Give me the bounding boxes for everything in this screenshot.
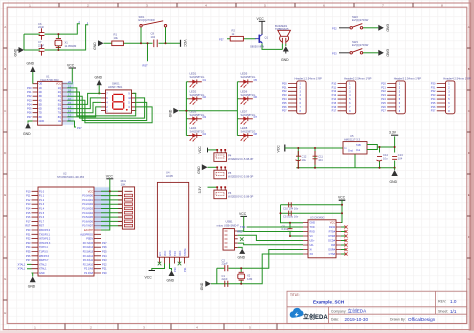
svg-text:S8050 NPN: S8050 NPN bbox=[250, 45, 264, 49]
svg-text:P1.1: P1.1 bbox=[39, 195, 45, 198]
wire bbox=[24, 24, 88, 50]
svg-text:2D: 2D bbox=[39, 91, 42, 94]
wire U4 power bbox=[152, 264, 172, 271]
connector Header4 bbox=[437, 76, 471, 114]
svg-text:2Q: 2Q bbox=[58, 91, 61, 94]
svg-text:P30: P30 bbox=[26, 228, 31, 232]
svg-text:D5: D5 bbox=[254, 78, 258, 82]
svg-text:P12: P12 bbox=[26, 198, 31, 202]
svg-text:10u: 10u bbox=[302, 158, 307, 162]
wire LE to P27 bbox=[67, 121, 76, 127]
svg-text:P02: P02 bbox=[282, 89, 287, 93]
svg-text:P0.3/AD3: P0.3/AD3 bbox=[82, 208, 93, 211]
frame column ticks bottom bbox=[65, 324, 277, 330]
svg-text:EN: EN bbox=[159, 252, 162, 256]
wire bbox=[104, 27, 181, 61]
svg-text:USB1: USB1 bbox=[226, 220, 234, 224]
svg-text:C5 100u 16v: C5 100u 16v bbox=[283, 215, 299, 219]
svg-text:P04: P04 bbox=[282, 97, 287, 101]
wire TXD RXD bbox=[243, 227, 303, 232]
wire segment bus bbox=[67, 88, 152, 123]
svg-text:Company:: Company: bbox=[331, 309, 347, 313]
svg-text:D6: D6 bbox=[254, 95, 258, 99]
capacitor C6 bbox=[38, 22, 44, 40]
svg-text:TITLE:: TITLE: bbox=[290, 293, 300, 297]
svg-text:X2: X2 bbox=[247, 274, 251, 278]
node labels U2 right P2x bbox=[102, 241, 107, 275]
svg-text:P6: P6 bbox=[228, 191, 232, 195]
junction bbox=[57, 49, 59, 51]
svg-text:XI: XI bbox=[310, 249, 313, 252]
svg-text:P1.6: P1.6 bbox=[39, 216, 45, 219]
selection highlight bbox=[95, 187, 110, 229]
junction bbox=[240, 267, 242, 285]
node P30-P37 labels bbox=[431, 81, 436, 112]
ground flag SMG1 common bbox=[95, 75, 103, 94]
svg-text:GND: GND bbox=[238, 256, 246, 260]
svg-text:GND: GND bbox=[27, 62, 35, 66]
wire P0 bus to RN1 bbox=[101, 196, 122, 226]
svg-text:P33: P33 bbox=[332, 52, 337, 56]
svg-text:GND: GND bbox=[281, 58, 289, 62]
svg-text:P10: P10 bbox=[332, 81, 337, 85]
svg-text:D4: D4 bbox=[203, 132, 207, 136]
resistor R1 bbox=[112, 33, 124, 46]
svg-text:4Q: 4Q bbox=[58, 99, 61, 102]
pin numbers U1 right bbox=[68, 80, 71, 121]
ground bbox=[197, 164, 208, 174]
svg-text:6D: 6D bbox=[39, 108, 42, 111]
node P20-P27 labels bbox=[381, 81, 386, 112]
svg-text:5Q: 5Q bbox=[58, 103, 61, 106]
svg-text:TXD: TXD bbox=[240, 225, 245, 229]
svg-text:P03: P03 bbox=[282, 93, 287, 97]
switch SW1 bbox=[139, 15, 167, 27]
ground bbox=[281, 46, 289, 62]
frame column ticks top bbox=[59, 3, 413, 7]
svg-text:Sheet:: Sheet: bbox=[438, 310, 448, 314]
svg-text:P10: P10 bbox=[26, 189, 31, 193]
pin stubs USB1 bbox=[235, 231, 238, 247]
svg-text:C14: C14 bbox=[383, 153, 388, 157]
selection highlight U1 bbox=[62, 82, 74, 125]
svg-text:STATE: STATE bbox=[184, 248, 187, 256]
svg-text:Example_SCH: Example_SCH bbox=[313, 299, 345, 304]
transistor Q1 bbox=[250, 34, 269, 48]
svg-text:X1: X1 bbox=[65, 41, 69, 45]
svg-text:P11: P11 bbox=[26, 194, 31, 198]
svg-text:P34: P34 bbox=[26, 245, 31, 249]
LED4 bbox=[188, 126, 206, 141]
svg-text:SW1: SW1 bbox=[139, 15, 145, 19]
svg-text:P01: P01 bbox=[282, 85, 287, 89]
svg-text:DCD#: DCD# bbox=[328, 240, 335, 243]
junction bbox=[379, 146, 396, 169]
svg-text:立创EDA: 立创EDA bbox=[348, 308, 368, 315]
svg-text:EVQQ2703W: EVQQ2703W bbox=[139, 18, 156, 22]
svg-text:P1.3: P1.3 bbox=[39, 203, 45, 206]
crystal X2 bbox=[238, 272, 253, 281]
connector P5 bbox=[208, 166, 254, 178]
LED7 bbox=[239, 110, 257, 125]
svg-text:REV:: REV: bbox=[438, 300, 446, 304]
svg-text:P32: P32 bbox=[431, 89, 436, 93]
svg-text:VCC: VCC bbox=[56, 83, 61, 86]
svg-text:TXD: TXD bbox=[174, 251, 177, 256]
svg-text:P31: P31 bbox=[183, 267, 187, 272]
ground bbox=[93, 40, 104, 50]
svg-text:XTAL2: XTAL2 bbox=[18, 262, 26, 266]
svg-text:D1: D1 bbox=[203, 78, 207, 82]
svg-text:VCC: VCC bbox=[145, 276, 153, 280]
svg-text:P22: P22 bbox=[381, 89, 386, 93]
svg-text:8Q: 8Q bbox=[58, 116, 61, 119]
sheet edge band right bbox=[469, 0, 474, 333]
svg-text:6Q: 6Q bbox=[58, 108, 61, 111]
svg-text:P0.4/AD4: P0.4/AD4 bbox=[82, 212, 93, 215]
frame row ticks right bbox=[467, 48, 471, 258]
pin names U2 right bbox=[80, 190, 93, 275]
svg-text:GND: GND bbox=[167, 278, 175, 282]
wire D- to UD+ bbox=[238, 235, 303, 240]
capacitor C8 bbox=[151, 32, 158, 48]
pin stubs SMG1 bbox=[101, 93, 136, 110]
svg-text:P03: P03 bbox=[27, 98, 32, 102]
svg-text:P32: P32 bbox=[26, 237, 31, 241]
svg-text:A: A bbox=[468, 25, 470, 29]
svg-text:H: H bbox=[4, 311, 6, 315]
svg-text:UD-: UD- bbox=[310, 244, 315, 247]
svg-text:P20: P20 bbox=[102, 271, 107, 275]
svg-text:P37: P37 bbox=[431, 109, 436, 113]
svg-text:P13: P13 bbox=[332, 93, 337, 97]
svg-text:E: E bbox=[468, 193, 470, 197]
svg-text:GND: GND bbox=[28, 284, 36, 288]
svg-text:TMB09A05: TMB09A05 bbox=[275, 27, 289, 31]
IC U3 bbox=[308, 215, 336, 257]
svg-text:C12: C12 bbox=[302, 155, 307, 159]
ground U1 bottom bbox=[23, 121, 33, 136]
svg-text:F: F bbox=[468, 235, 470, 239]
svg-text:DTR#: DTR# bbox=[328, 235, 335, 238]
svg-text:VCC: VCC bbox=[198, 146, 202, 154]
buzzer BUZZER1 bbox=[275, 24, 290, 44]
svg-text:RST: RST bbox=[143, 64, 149, 68]
svg-text:P4: P4 bbox=[228, 154, 232, 158]
ground bbox=[14, 47, 25, 57]
pin stubs U2 right bbox=[94, 191, 101, 273]
svg-text:P00: P00 bbox=[282, 81, 287, 85]
svg-text:P21: P21 bbox=[381, 85, 386, 89]
svg-text:P13: P13 bbox=[26, 202, 31, 206]
svg-text:EVQQ2703W: EVQQ2703W bbox=[352, 43, 369, 47]
capacitor C11 bbox=[313, 151, 324, 165]
ground bbox=[167, 271, 175, 283]
svg-text:P26: P26 bbox=[381, 105, 386, 109]
decimal point bbox=[126, 109, 128, 111]
capacitor C14 bbox=[377, 153, 389, 161]
ground flag above U1 bbox=[27, 62, 36, 84]
svg-text:P26: P26 bbox=[102, 245, 107, 249]
svg-text:P16: P16 bbox=[332, 105, 337, 109]
svg-text:Header1 2.54mm 1*8P: Header1 2.54mm 1*8P bbox=[295, 76, 323, 80]
pin stubs U4 bbox=[160, 257, 185, 263]
svg-text:Drawn By:: Drawn By: bbox=[390, 318, 406, 322]
IC U4 bbox=[157, 171, 188, 258]
svg-text:VCC: VCC bbox=[338, 196, 346, 200]
svg-text:U5: U5 bbox=[350, 134, 354, 138]
node P00-P07 labels bbox=[282, 81, 287, 112]
svg-text:Q1: Q1 bbox=[265, 36, 269, 40]
svg-text:RI#: RI# bbox=[331, 244, 336, 247]
junction bbox=[289, 222, 291, 237]
svg-text:1D: 1D bbox=[39, 87, 42, 90]
svg-text:P37: P37 bbox=[219, 38, 224, 42]
no-connect X pins bbox=[158, 262, 182, 266]
svg-text:VCC: VCC bbox=[88, 190, 93, 193]
no-connect X bbox=[240, 237, 244, 241]
svg-text:7D: 7D bbox=[39, 112, 42, 115]
connector USB1 bbox=[217, 220, 240, 251]
svg-text:P12: P12 bbox=[332, 89, 337, 93]
power flag VCC above RN1 bbox=[106, 174, 114, 179]
svg-text:OfficalDesign: OfficalDesign bbox=[408, 317, 436, 322]
wire XTAL nodes bbox=[27, 264, 32, 268]
svg-text:XTAL1: XTAL1 bbox=[39, 268, 47, 271]
wire GND rail LEDs bbox=[179, 110, 237, 112]
svg-text:T1/P3.5: T1/P3.5 bbox=[39, 251, 48, 254]
svg-text:U4: U4 bbox=[166, 171, 170, 175]
svg-text:0.01u: 0.01u bbox=[282, 227, 289, 231]
svg-text:P32: P32 bbox=[332, 27, 337, 31]
svg-text:P1.5: P1.5 bbox=[39, 212, 45, 215]
junction bbox=[185, 110, 187, 112]
connector P4 bbox=[208, 149, 254, 161]
svg-text:AMS1117-3.3: AMS1117-3.3 bbox=[344, 137, 361, 141]
svg-text:P14: P14 bbox=[332, 97, 337, 101]
title text bbox=[290, 293, 457, 322]
capacitor C2 bbox=[222, 259, 228, 272]
svg-text:P2.3/A11: P2.3/A11 bbox=[83, 259, 94, 262]
svg-text:3Q: 3Q bbox=[58, 95, 61, 98]
junction bbox=[140, 42, 142, 44]
pin stubs U2 left bbox=[32, 191, 39, 273]
crystal X1 bbox=[55, 39, 77, 48]
svg-text:1Q: 1Q bbox=[58, 87, 61, 90]
pin numbers SMG1 bbox=[106, 91, 131, 112]
svg-text:P07: P07 bbox=[282, 109, 287, 113]
svg-text:micro USB-SMD-F: micro USB-SMD-F bbox=[217, 224, 240, 228]
pin stubs U3 left bbox=[303, 223, 308, 255]
switch SW2 bbox=[350, 15, 369, 29]
svg-text:RXD/P3.0: RXD/P3.0 bbox=[39, 229, 51, 232]
svg-text:7Q: 7Q bbox=[58, 112, 61, 115]
svg-text:P24: P24 bbox=[102, 254, 107, 258]
connector Header2 bbox=[338, 76, 372, 114]
pin stubs U1 right bbox=[62, 84, 67, 121]
svg-text:P01: P01 bbox=[27, 90, 32, 94]
svg-text:GND: GND bbox=[169, 109, 173, 117]
svg-text:P04: P04 bbox=[27, 102, 32, 106]
svg-text:P24: P24 bbox=[381, 97, 386, 101]
svg-text:P06: P06 bbox=[282, 105, 287, 109]
svg-text:P07: P07 bbox=[27, 115, 32, 119]
node P10-P17 labels bbox=[332, 81, 337, 112]
svg-text:GND: GND bbox=[14, 48, 18, 56]
capacitor C7 bbox=[38, 40, 44, 55]
svg-text:P2.1/A9: P2.1/A9 bbox=[84, 268, 94, 271]
svg-text:VCC: VCC bbox=[164, 251, 167, 256]
svg-text:P27: P27 bbox=[77, 126, 82, 130]
svg-text:P15: P15 bbox=[332, 101, 337, 105]
svg-text:HDSP-7801: HDSP-7801 bbox=[108, 85, 123, 89]
svg-text:WJ2EDGVC-5.08-3P: WJ2EDGVC-5.08-3P bbox=[228, 194, 253, 198]
connector P6 bbox=[208, 186, 254, 198]
pin names U3 bbox=[310, 222, 316, 257]
svg-text:P35: P35 bbox=[26, 250, 31, 254]
svg-text:1.0: 1.0 bbox=[450, 299, 457, 304]
svg-text:VCC: VCC bbox=[239, 212, 247, 216]
svg-text:10k: 10k bbox=[114, 36, 119, 40]
svg-text:SA6258T1G: SA6258T1G bbox=[241, 75, 256, 79]
junction bbox=[297, 147, 316, 169]
svg-text:P0.0/AD0: P0.0/AD0 bbox=[82, 195, 93, 198]
svg-text:4D: 4D bbox=[39, 99, 42, 102]
power flag VCC input bbox=[277, 145, 285, 153]
svg-text:104: 104 bbox=[318, 158, 323, 162]
svg-text:VCC: VCC bbox=[330, 222, 335, 225]
svg-text:P0.6/AD6: P0.6/AD6 bbox=[82, 220, 93, 223]
svg-text:11.0592M: 11.0592M bbox=[65, 44, 78, 48]
svg-text:P06: P06 bbox=[27, 111, 32, 115]
svg-text:F: F bbox=[4, 235, 6, 239]
svg-text:A: A bbox=[4, 25, 6, 29]
svg-text:P34: P34 bbox=[431, 97, 436, 101]
svg-text:U2: U2 bbox=[63, 172, 67, 176]
svg-text:GND: GND bbox=[95, 75, 103, 79]
svg-text:XO: XO bbox=[310, 253, 314, 256]
svg-text:RXD: RXD bbox=[179, 251, 182, 256]
svg-text:P11: P11 bbox=[332, 85, 337, 89]
svg-text:P25: P25 bbox=[102, 250, 107, 254]
svg-text:P27: P27 bbox=[102, 241, 107, 245]
connector Header1 bbox=[288, 76, 322, 114]
svg-text:P23: P23 bbox=[102, 258, 107, 262]
svg-text:22pF: 22pF bbox=[38, 43, 44, 47]
svg-text:P2.0/A8: P2.0/A8 bbox=[84, 272, 94, 275]
svg-text:P5: P5 bbox=[228, 171, 232, 175]
digit 8 bbox=[113, 94, 124, 109]
wire bus LED column B bbox=[237, 82, 239, 136]
svg-text:P2.6/A14: P2.6/A14 bbox=[83, 246, 94, 249]
power flag VCC above U1 bbox=[67, 64, 76, 84]
svg-text:P05: P05 bbox=[27, 107, 32, 111]
svg-text:VCC: VCC bbox=[257, 17, 265, 21]
svg-text:P1.7: P1.7 bbox=[39, 220, 45, 223]
pin stubs U1 left bbox=[33, 84, 38, 121]
svg-text:P16: P16 bbox=[26, 215, 31, 219]
svg-text:立创EDA: 立创EDA bbox=[303, 313, 328, 321]
svg-text:GND: GND bbox=[386, 24, 390, 32]
svg-text:Date:: Date: bbox=[331, 318, 339, 322]
power flag VCC bbox=[145, 271, 156, 280]
svg-text:P00: P00 bbox=[27, 86, 32, 90]
svg-text:C10 104 16v: C10 104 16v bbox=[283, 206, 299, 210]
svg-text:WJ2EDGVC-5.08-3P: WJ2EDGVC-5.08-3P bbox=[228, 174, 253, 178]
svg-text:RXD: RXD bbox=[310, 231, 315, 234]
LED6 bbox=[239, 90, 257, 105]
resistor R2 bbox=[230, 29, 243, 42]
svg-text:P2.5/A13: P2.5/A13 bbox=[83, 251, 94, 254]
svg-text:Out: Out bbox=[356, 149, 360, 152]
svg-text:P33: P33 bbox=[26, 241, 31, 245]
svg-text:VCC: VCC bbox=[67, 64, 75, 68]
power flag VCC bbox=[181, 40, 188, 48]
svg-text:Header3 2.54mm 1*8P: Header3 2.54mm 1*8P bbox=[394, 76, 422, 80]
svg-text:STC89C51RC-40I-PDI: STC89C51RC-40I-PDI bbox=[57, 175, 84, 179]
wire bbox=[339, 52, 378, 54]
svg-text:D3: D3 bbox=[203, 115, 207, 119]
wire V3 bbox=[290, 235, 303, 237]
svg-text:EA/VPP: EA/VPP bbox=[84, 229, 93, 232]
svg-text:P1.2: P1.2 bbox=[39, 199, 45, 202]
node labels U1 left bbox=[27, 86, 32, 119]
svg-text:D2: D2 bbox=[203, 95, 207, 99]
svg-text:B: B bbox=[4, 67, 6, 71]
svg-text:R232: R232 bbox=[329, 226, 336, 229]
svg-text:P23: P23 bbox=[381, 93, 386, 97]
svg-text:P21: P21 bbox=[102, 267, 107, 271]
svg-text:104: 104 bbox=[398, 157, 403, 161]
svg-text:OE: OE bbox=[39, 83, 43, 86]
pin names U1 bbox=[39, 83, 45, 123]
LED8 bbox=[239, 126, 257, 141]
svg-text:INT1/P3.3: INT1/P3.3 bbox=[39, 242, 51, 245]
capacitor C13 bbox=[392, 153, 403, 160]
svg-text:3D: 3D bbox=[39, 95, 42, 98]
svg-text:CTS#: CTS# bbox=[329, 253, 336, 256]
svg-text:VCC: VCC bbox=[183, 40, 187, 48]
svg-text:P05: P05 bbox=[282, 101, 287, 105]
svg-text:P2.4/A12: P2.4/A12 bbox=[83, 255, 94, 258]
svg-text:EVQQ2703W: EVQQ2703W bbox=[352, 18, 369, 22]
svg-text:22pF: 22pF bbox=[222, 262, 228, 266]
wire XI XO bbox=[241, 250, 303, 284]
svg-text:GND: GND bbox=[93, 42, 97, 50]
svg-text:TXD: TXD bbox=[310, 226, 315, 229]
svg-text:5D: 5D bbox=[39, 103, 42, 106]
svg-text:U3 CH340G: U3 CH340G bbox=[310, 215, 325, 219]
ground bbox=[169, 108, 180, 118]
svg-text:RN1: RN1 bbox=[121, 179, 127, 183]
capacitor C9 bbox=[282, 223, 293, 236]
ground bbox=[378, 49, 389, 57]
capacitor C5 bbox=[283, 211, 299, 219]
svg-text:Header2 2.54mm 1*8P: Header2 2.54mm 1*8P bbox=[344, 76, 372, 80]
ground bbox=[238, 247, 246, 259]
ground bbox=[200, 281, 211, 290]
node labels U2 left bbox=[25, 189, 31, 262]
wire VCC to pins bbox=[101, 179, 122, 230]
svg-text:P1.4: P1.4 bbox=[39, 208, 45, 211]
svg-text:VCC: VCC bbox=[106, 174, 114, 178]
svg-text:GND: GND bbox=[200, 282, 204, 290]
frame column numbers bbox=[29, 4, 443, 8]
pin names U4 bbox=[159, 248, 187, 256]
svg-text:P2.7/A15: P2.7/A15 bbox=[83, 242, 94, 245]
svg-text:P2.2/A10: P2.2/A10 bbox=[83, 263, 94, 266]
svg-text:TAB: TAB bbox=[356, 144, 361, 147]
